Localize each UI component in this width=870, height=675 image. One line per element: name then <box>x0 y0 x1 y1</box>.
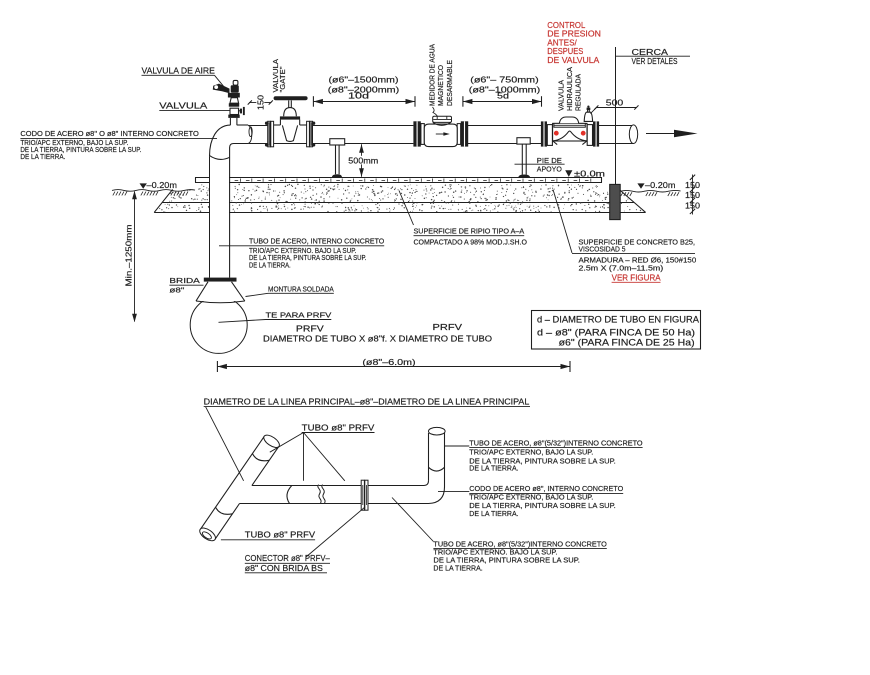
svg-text:"GATE": "GATE" <box>278 66 287 92</box>
tee saddle arc <box>287 486 292 504</box>
svg-text:d – DIAMETRO DE TUBO EN FIGU: d – DIAMETRO DE TUBO EN FIGURA <box>537 315 699 325</box>
hydraulic valve flanges right <box>587 121 599 146</box>
caption PRFV / diametro de tubo <box>263 323 492 344</box>
svg-text:ø8": ø8" <box>169 286 184 295</box>
main pipe segment A (elbow to gate valve) <box>248 126 268 144</box>
diagonal PRFV pipe (tubo o8 PRFV) <box>198 433 282 544</box>
dimension (o8"-6.0m) under sphere <box>217 357 570 372</box>
right ground surface squiggle and grass <box>621 190 681 196</box>
svg-text:DESARMABLE: DESARMABLE <box>445 60 454 106</box>
svg-text:(ø6"–1500mm): (ø6"–1500mm) <box>329 74 399 84</box>
svg-text:10d: 10d <box>348 92 369 101</box>
svg-text:PRFV: PRFV <box>433 323 463 332</box>
svg-text:SUPERFICIE DE RIPIO TIPO A–A: SUPERFICIE DE RIPIO TIPO A–A <box>414 227 525 236</box>
legend box <box>532 311 701 350</box>
open pipe end <box>629 125 637 144</box>
svg-text:VER FIGURA: VER FIGURA <box>612 273 662 282</box>
label TUBO o8 PRFV (top) with leader fan <box>270 423 375 481</box>
water meter body <box>424 122 457 146</box>
label CONECTOR o8 PRFV with leader <box>245 507 365 573</box>
right -0.20m level marker <box>637 181 675 190</box>
pipe support 2: pie de apoyo <box>517 138 530 178</box>
diagonal pipe joint arcs <box>216 454 270 515</box>
svg-text:5d: 5d <box>497 92 509 101</box>
fence post (dark) <box>610 184 621 219</box>
svg-text:CERCA: CERCA <box>632 48 669 57</box>
flow direction arrow <box>646 130 698 138</box>
left -0.20m level marker <box>140 181 178 190</box>
rotated label VALVULA "GATE" <box>271 59 287 93</box>
svg-text:TUBO ø8" PRFV: TUBO ø8" PRFV <box>302 423 375 432</box>
text block: superficie de concreto <box>553 190 696 283</box>
svg-text:APOYO: APOYO <box>537 165 562 174</box>
svg-text:MONTURA SOLDADA: MONTURA SOLDADA <box>268 284 334 293</box>
svg-text:–0.20m: –0.20m <box>645 181 676 190</box>
concrete slab B25 <box>195 178 602 183</box>
flange (brida) at pipe bottom <box>204 278 237 282</box>
water meter flanges <box>413 121 468 146</box>
hydraulic valve flanges left <box>541 121 552 146</box>
svg-text:150: 150 <box>256 95 265 110</box>
svg-text:(ø8"–6.0m): (ø8"–6.0m) <box>362 357 416 367</box>
text block: superficie de ripio <box>399 191 527 247</box>
small isolation valve (valvula) with side wheel <box>228 103 244 118</box>
flow arrow inside meter <box>436 132 450 136</box>
dimension 500mm (pipe height above slab) <box>346 144 379 177</box>
air valve body (valvula de aire) <box>213 80 240 103</box>
svg-text:500: 500 <box>606 97 624 107</box>
svg-text:CONECTOR ø8" PRFV–: CONECTOR ø8" PRFV– <box>245 554 330 563</box>
svg-text:DE LA TIERRA.: DE LA TIERRA. <box>469 464 518 473</box>
vertical pipe crossing mask <box>210 177 229 214</box>
svg-text:VISCOSIDAD 5: VISCOSIDAD 5 <box>579 245 626 254</box>
text block: tubo de acero 5/32 (vertical pipe) <box>445 438 643 472</box>
fence line (cerca) <box>615 47 617 184</box>
label VALVULA with leader <box>159 102 229 111</box>
pipe support 1 (near gate valve) <box>330 139 345 178</box>
elbow to vertical pipe (bottom fig) <box>424 481 445 504</box>
buried vertical pipe (tubo de acero) <box>210 156 230 277</box>
pipe break symbol <box>318 485 325 504</box>
svg-text:DE VALVULA: DE VALVULA <box>547 55 599 65</box>
dimension 10d with pipe lengths <box>313 74 415 106</box>
svg-text:DIAMETRO DE LA LINEA PRINCIPAL: DIAMETRO DE LA LINEA PRINCIPAL–ø8"–DIAME… <box>204 397 530 406</box>
svg-text:DE LA TIERRA.: DE LA TIERRA. <box>433 564 482 573</box>
svg-text:Min.–1250mm: Min.–1250mm <box>125 224 134 286</box>
svg-text:PRFV: PRFV <box>296 324 325 333</box>
svg-text:2.5m X (7.0m–11.5m): 2.5m X (7.0m–11.5m) <box>579 264 664 273</box>
label PIE DE APOYO with leader <box>515 156 565 174</box>
main pipe segment D (hydraulic valve to open end) <box>599 126 634 144</box>
svg-text:TRIO/APC EXTERNO, BAJO LA SUP.: TRIO/APC EXTERNO, BAJO LA SUP. <box>469 447 593 456</box>
svg-text:VER DETALES: VER DETALES <box>632 57 678 66</box>
rotated label MEDIDOR DE AGUA / MAGNETICO / DESARMABLE <box>427 44 454 116</box>
svg-text:ø6" (PARA FINCA DE 25 Ha): ø6" (PARA FINCA DE 25 Ha) <box>559 338 695 348</box>
svg-text:DE LA TIERRA.: DE LA TIERRA. <box>249 260 291 269</box>
sphere: PRFV tee ball <box>190 296 247 353</box>
text block: codo de acero (bottom fig) <box>438 484 623 518</box>
gravel bed layer 2 (stippled) <box>154 189 645 212</box>
text block: tubo de acero (buried pipe) <box>219 237 385 270</box>
welded mount flare (montura soldada) <box>196 282 245 303</box>
svg-text:500mm: 500mm <box>348 155 378 165</box>
svg-text:DE LA TIERRA.: DE LA TIERRA. <box>469 509 518 518</box>
steel elbow (codo) <box>210 125 249 159</box>
svg-text:TUBO DE ACERO, ø8"(5/32")INTER: TUBO DE ACERO, ø8"(5/32")INTERNO CONCRET… <box>469 438 642 447</box>
label VALVULA DE AIRE with leader <box>142 66 229 91</box>
label CERCA / VER DETALES <box>615 48 690 66</box>
svg-text:±0.0m: ±0.0m <box>574 169 605 179</box>
pilot valve on top <box>584 106 592 122</box>
svg-text:DE LA TIERRA.: DE LA TIERRA. <box>20 153 65 161</box>
svg-text:TE PARA PRFV: TE PARA PRFV <box>266 311 332 320</box>
bottom horizontal pipe <box>240 486 429 504</box>
svg-text:CODO DE ACERO ø8" O ø8" INTERN: CODO DE ACERO ø8" O ø8" INTERNO CONCRETO <box>20 130 199 138</box>
pipe joint bell at elbow outlet <box>248 126 252 144</box>
bottom title: diametro de la linea principal <box>204 397 530 481</box>
svg-text:TUBO ø8" PRFV: TUBO ø8" PRFV <box>245 531 316 540</box>
label BRIDA o8 <box>169 276 203 294</box>
svg-text:COMPACTADO A 98% MOD.J.SH.O: COMPACTADO A 98% MOD.J.SH.O <box>414 238 528 247</box>
main pipe segment C (meter to hydraulic valve) <box>468 126 541 144</box>
150/150/150 layer dimension chain <box>685 175 700 215</box>
slab reinforcement mesh line with ticks <box>235 179 591 182</box>
svg-text:–0.20m: –0.20m <box>147 181 178 190</box>
text block: tubo de acero 5/32 (horizontal pipe) <box>392 498 607 573</box>
gate valve body <box>274 120 307 144</box>
svg-text:VALVULA DE AIRE: VALVULA DE AIRE <box>142 66 216 75</box>
dimension Min.-1250mm (burial depth) <box>125 191 137 322</box>
dimension 500 (valve to fence) <box>590 97 638 113</box>
dimension 150 (air valve offset) <box>248 95 273 110</box>
svg-text:PIE DE: PIE DE <box>537 156 562 165</box>
dimension 5d with pipe lengths <box>463 74 542 106</box>
text block: codo de acero (top left) <box>20 130 217 161</box>
gate valve flanges <box>265 121 315 147</box>
svg-text:BRIDA: BRIDA <box>169 276 199 285</box>
svg-text:REGULADA: REGULADA <box>574 74 583 111</box>
label MONTURA SOLDADA with leader <box>246 284 334 296</box>
riser stub to air valve <box>230 118 237 125</box>
main pipe segment B (gate valve to meter) <box>313 126 414 144</box>
svg-text:MEDIDOR DE AGUA: MEDIDOR DE AGUA <box>427 44 436 106</box>
gate valve bonnet, stem and handwheel <box>274 96 308 119</box>
label TE PARA PRFV with leader <box>219 311 332 323</box>
hydraulic valve body with diaphragm <box>553 117 587 145</box>
label TUBO o8 PRFV (lower left) <box>221 531 316 540</box>
svg-text:(ø6"– 750mm): (ø6"– 750mm) <box>470 74 539 84</box>
red control note <box>547 20 601 65</box>
left ground surface squiggle and grass <box>112 190 195 196</box>
svg-text:d – ø8" (PARA FINCA DE 50 H: d – ø8" (PARA FINCA DE 50 Ha) <box>537 327 695 337</box>
water meter top cap <box>433 116 452 122</box>
flanged connector (conector PRFV) <box>361 480 368 510</box>
rotated label VALVULA HIDRAULICA REGULADA <box>557 67 583 111</box>
svg-text:DIAMETRO DE TUBO X ø8"f. X DIA: DIAMETRO DE TUBO X ø8"f. X DIAMETRO DE T… <box>263 335 492 344</box>
svg-text:ø8" CON BRIDA BS: ø8" CON BRIDA BS <box>245 564 324 573</box>
vertical pipe (bottom fig) <box>429 427 446 487</box>
gravel bed layer 1 (stippled) <box>162 184 633 203</box>
svg-text:VALVULA: VALVULA <box>159 102 208 111</box>
svg-text:TUBO DE ACERO, INTERNO CONCRET: TUBO DE ACERO, INTERNO CONCRETO <box>249 237 385 246</box>
level marker +-0.0m <box>565 169 605 179</box>
